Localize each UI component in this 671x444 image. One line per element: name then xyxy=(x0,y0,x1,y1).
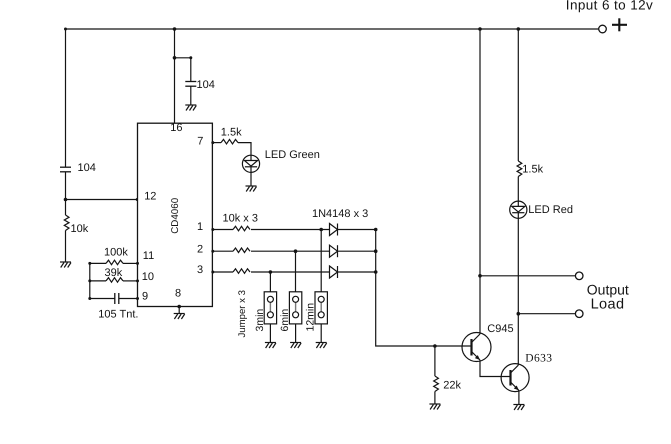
wire: to LED green xyxy=(238,143,251,156)
node: jumper2 tap xyxy=(294,249,298,253)
ground xyxy=(290,343,301,349)
output terminal 1 xyxy=(575,272,583,280)
wire: 1.5k to LED red xyxy=(517,177,519,202)
wire: down to 22k xyxy=(434,346,436,376)
wire: diode bus down to base xyxy=(376,230,472,347)
svg-text:1: 1 xyxy=(197,221,203,233)
wire: to pin 12 xyxy=(66,199,138,201)
ground xyxy=(429,404,440,410)
node xyxy=(517,312,521,316)
wire: to diode 2 xyxy=(251,250,330,252)
jumper J2 box xyxy=(289,292,301,324)
wire: LED to ground xyxy=(250,172,252,185)
node: rail junction xyxy=(173,27,177,31)
svg-text:12: 12 xyxy=(144,191,156,203)
ground xyxy=(60,262,71,268)
wire: pin 1 line xyxy=(212,229,233,231)
resistor 1.5k (red) xyxy=(517,161,522,177)
svg-text:100k: 100k xyxy=(104,246,128,258)
wire: C945 collector up to rail xyxy=(479,29,481,334)
capacitor 104 (decoupling) xyxy=(185,82,196,87)
jumper J1 box xyxy=(264,292,276,324)
resistor 39k xyxy=(106,278,123,283)
resistor 100k xyxy=(106,260,123,265)
svg-text:2: 2 xyxy=(197,243,203,255)
svg-text:9: 9 xyxy=(142,290,148,302)
svg-text:C945: C945 xyxy=(487,323,513,335)
svg-text:3: 3 xyxy=(197,264,203,276)
svg-text:1.5k: 1.5k xyxy=(221,127,242,139)
resistor 10k (c) xyxy=(233,269,250,274)
wire: jumper1 tap down xyxy=(269,272,271,292)
svg-text:10k: 10k xyxy=(71,223,89,235)
transistor Q1 C945 xyxy=(462,333,491,362)
node: junction at pin12 line xyxy=(64,198,68,202)
wire: branch to decoupling cap xyxy=(175,58,191,82)
svg-text:12min: 12min xyxy=(304,303,316,332)
node: bus top xyxy=(374,228,378,232)
svg-text:3min: 3min xyxy=(254,309,266,332)
wire: 22k to ground xyxy=(434,392,436,404)
svg-text:22k: 22k xyxy=(443,380,461,392)
node: bus mid xyxy=(374,249,378,253)
wire: pin 7 out xyxy=(212,142,221,144)
svg-text:11: 11 xyxy=(143,250,154,262)
svg-text:Jumper x 3: Jumper x 3 xyxy=(237,290,248,337)
node: rail junction xyxy=(517,27,521,31)
ground pin 8 xyxy=(174,314,185,320)
capacitor 104 (left) xyxy=(60,167,71,172)
wire: jumper3 to ground xyxy=(320,324,322,342)
resistor 10k (b) xyxy=(233,248,250,253)
svg-text:10k x 3: 10k x 3 xyxy=(223,213,258,225)
IC U1 CD4060 xyxy=(138,123,213,306)
wire: +V top rail xyxy=(66,28,599,30)
resistor R 1.5k xyxy=(221,139,238,144)
resistor 10k (a) xyxy=(233,226,250,231)
wire: LED red down to D633 collector xyxy=(517,218,519,365)
wire: output 2 xyxy=(518,313,575,315)
wire: left vertical drop from rail xyxy=(65,29,67,167)
transistor Q2 D633 xyxy=(501,364,529,392)
svg-text:LED Red: LED Red xyxy=(528,204,573,216)
plus symbol xyxy=(612,18,627,31)
node: jumper1 tap xyxy=(269,270,273,274)
wire: pin 11 xyxy=(90,262,106,264)
wire: pin 9 xyxy=(90,298,115,300)
svg-text:8: 8 xyxy=(175,287,181,299)
wire: pin 2 line xyxy=(212,250,233,252)
wire: D633 emitter to ground xyxy=(518,390,520,404)
wire: jumper2 to ground xyxy=(295,324,297,342)
svg-text:CD4060: CD4060 xyxy=(170,197,181,233)
node: jumper3 tap xyxy=(319,228,323,232)
wire: 10k to ground xyxy=(65,231,67,262)
wire: jumper3 tap down xyxy=(320,230,322,292)
svg-text:Input 6 to 12v: Input 6 to 12v xyxy=(566,0,653,13)
resistor 22k xyxy=(434,376,439,392)
ground xyxy=(185,105,196,111)
ground xyxy=(246,186,257,192)
svg-text:104: 104 xyxy=(197,79,215,91)
svg-text:1N4148 x 3: 1N4148 x 3 xyxy=(312,208,368,220)
wire: diode 2 to bus xyxy=(338,250,376,252)
svg-text:Output: Output xyxy=(587,282,629,298)
wire: cap to ground xyxy=(190,86,192,104)
wire: jumper2 tap down xyxy=(295,251,297,292)
node: 22k junction xyxy=(433,344,437,348)
wire: diode 3 to bus xyxy=(338,271,376,273)
wire: pin 10 xyxy=(90,280,106,282)
diode D2 1N4148 xyxy=(330,245,338,257)
wire: pin 8 ground stub xyxy=(178,307,180,314)
diode D1 1N4148 xyxy=(330,224,338,236)
wire: to diode 3 xyxy=(251,271,330,273)
wire: RC left vertical xyxy=(89,263,91,298)
input terminal xyxy=(599,25,607,33)
svg-text:LED Green: LED Green xyxy=(265,149,320,161)
wire: output 1 xyxy=(480,275,576,277)
wire: LED-red branch vertical from rail xyxy=(517,29,519,161)
svg-text:1.5k: 1.5k xyxy=(522,164,543,176)
output terminal 2 xyxy=(575,310,583,318)
svg-text:105 Tnt.: 105 Tnt. xyxy=(98,309,138,321)
svg-text:D633: D633 xyxy=(525,353,552,365)
svg-text:16: 16 xyxy=(170,122,182,134)
wire: pin 3 line xyxy=(212,271,233,273)
wire: C945 emitter to D633 base xyxy=(480,360,511,377)
svg-text:Load: Load xyxy=(591,297,625,313)
wire: jumper1 to ground xyxy=(269,324,271,342)
LED Red xyxy=(510,201,527,218)
wire: diode 1 to bus xyxy=(338,229,376,231)
wire: Vcc drop to pin 16 xyxy=(174,29,176,123)
LED Green xyxy=(242,155,259,172)
svg-text:6min: 6min xyxy=(279,309,291,332)
node: bus low xyxy=(374,270,378,274)
diode D3 1N4148 xyxy=(330,266,338,278)
svg-text:10: 10 xyxy=(142,271,154,283)
wire: to diode 1 xyxy=(251,229,330,231)
resistor 10k (vertical) xyxy=(64,215,69,231)
svg-text:7: 7 xyxy=(197,135,203,147)
node: branch junction xyxy=(173,56,177,60)
svg-text:104: 104 xyxy=(78,162,96,174)
wire: cap to pin12 node xyxy=(65,172,67,215)
node xyxy=(478,274,482,278)
ground xyxy=(513,405,524,411)
node: rail junction xyxy=(478,27,482,31)
capacitor 105 xyxy=(115,293,119,304)
ground xyxy=(265,343,276,349)
svg-text:39k: 39k xyxy=(105,267,123,279)
jumper J3 box xyxy=(315,292,327,324)
ground xyxy=(316,343,327,349)
